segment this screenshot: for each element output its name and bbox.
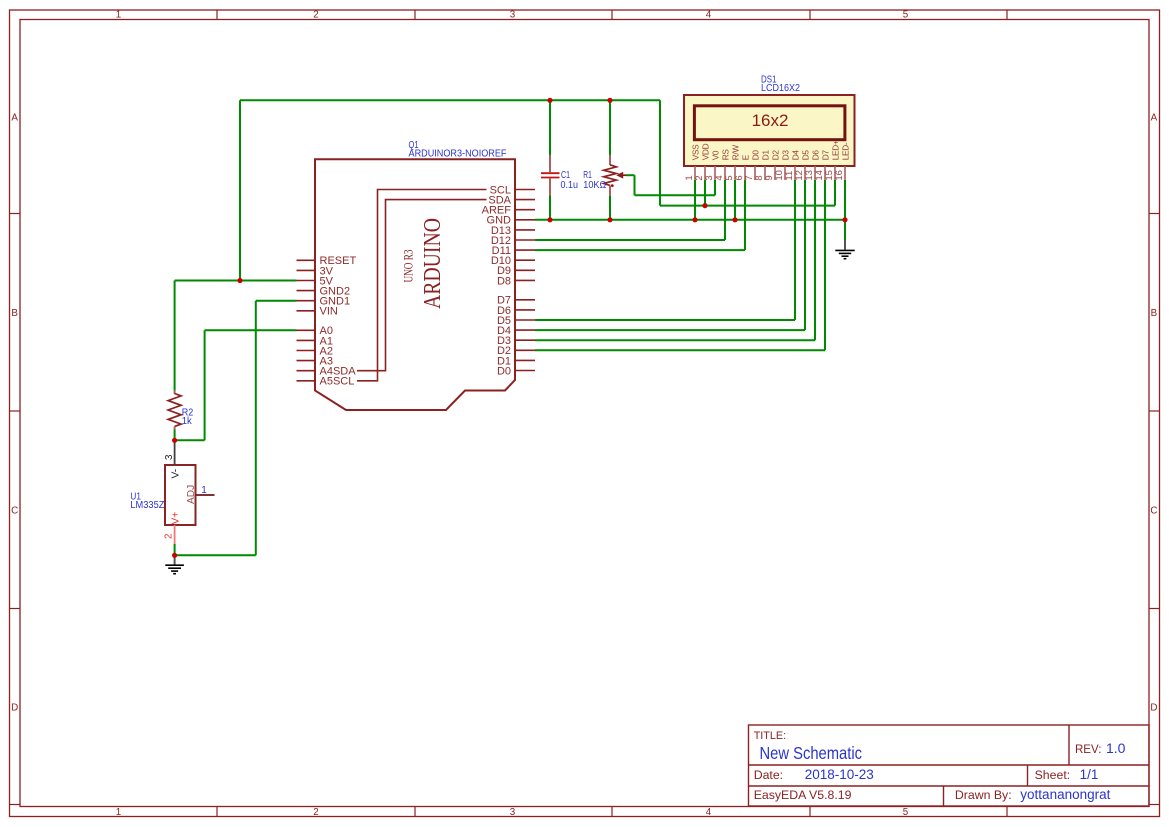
resistor R2 1k [174,391,176,394]
svg-text:D3: D3 [780,150,790,161]
svg-text:LCD16X2: LCD16X2 [761,83,800,94]
svg-text:UNO R3: UNO R3 [401,250,416,283]
svg-text:D5: D5 [800,150,810,161]
wire R1 wiper to LCD V0 [626,174,635,176]
junction U1 ground node [172,553,177,558]
wire U1 pin2 to ground node [174,544,176,555]
svg-text:D2: D2 [770,150,780,161]
svg-text:D6: D6 [810,150,820,161]
svg-text:1: 1 [116,10,121,21]
wire C1 top [549,100,551,155]
svg-text:3: 3 [164,454,175,460]
svg-text:New Schematic: New Schematic [760,743,863,763]
svg-text:VDD: VDD [700,143,710,160]
svg-text:REV:: REV: [1075,744,1101,756]
svg-text:A: A [11,112,18,123]
DS1 pins 1-16 [694,166,696,180]
svg-text:Sheet:: Sheet: [1035,768,1071,782]
junction A0/R2/U1 [172,438,177,443]
wire R1 top [609,100,611,155]
svg-text:TITLE:: TITLE: [754,730,786,742]
svg-text:B: B [1151,308,1158,319]
potentiometer R1 10KOhm [609,155,611,165]
Q1 left pins [297,259,316,261]
svg-text:LM335Z: LM335Z [130,500,164,511]
arduino U-symbol Q1 ARDUINOR3-NOIOREF outline [315,159,515,410]
junction 5V/C1 [547,98,552,103]
svg-text:VSS: VSS [690,144,700,160]
svg-text:D1: D1 [760,150,770,161]
wire LCD pin drops [694,180,696,220]
R1 wiper arrow [618,174,626,176]
svg-text:5: 5 [903,10,909,21]
wire 5V to LED+ vertical [659,100,661,205]
svg-text:1: 1 [116,807,121,818]
svg-text:C: C [11,506,18,517]
ground symbol left [174,555,176,564]
sensor U1 LM335Z body [165,465,196,525]
wire GND net bottom horizontal [535,219,845,221]
svg-text:ADJ: ADJ [186,485,197,504]
svg-text:16: 16 [834,170,845,181]
wire R2 bottom to node [174,429,176,440]
junction 5V node [237,278,242,283]
svg-text:V-: V- [171,469,182,479]
svg-text:V0: V0 [710,150,720,160]
svg-text:ARDUINOR3-NOIOREF: ARDUINOR3-NOIOREF [409,149,507,160]
svg-text:D8: D8 [497,275,511,287]
svg-text:D4: D4 [790,150,800,161]
svg-text:D0: D0 [497,365,511,377]
svg-text:1k: 1k [182,416,193,427]
svg-text:D: D [1150,703,1157,714]
svg-text:LED+: LED+ [830,140,840,160]
junction GND/C1 [547,217,552,222]
svg-text:3: 3 [510,10,516,21]
Q1 right pins [515,189,535,191]
wire D5 to LCD D4 [535,319,795,321]
Q1 internal SCL to A5SCL wire [357,190,487,381]
U1 pin 2 bottom [174,525,176,544]
DS1 display window [694,106,845,140]
svg-text:V+: V+ [171,512,182,525]
svg-text:B: B [11,308,18,319]
svg-text:EasyEDA V5.8.19: EasyEDA V5.8.19 [754,788,852,802]
svg-text:16x2: 16x2 [752,111,789,130]
svg-text:2: 2 [313,10,318,21]
svg-text:1/1: 1/1 [1080,767,1099,782]
svg-text:1.0: 1.0 [1106,740,1126,756]
Q1 internal SDA to A4SDA wire [357,200,487,371]
svg-text:5: 5 [903,807,909,818]
wire 5V net left vertical [239,100,241,280]
svg-text:0.1u: 0.1u [561,180,579,191]
svg-text:3: 3 [510,807,516,818]
svg-text:1: 1 [201,485,207,496]
svg-text:D: D [11,703,18,714]
svg-text:RS: RS [720,149,730,161]
junction GND/VSS [692,217,697,222]
svg-text:C: C [1150,506,1157,517]
R1 pin dot [611,184,614,187]
junction GND/LED- [842,217,847,222]
svg-text:D7: D7 [820,150,830,161]
svg-text:10KΩ: 10KΩ [583,180,606,191]
U1 pin 1 ADJ [196,494,215,496]
wire D3 to LCD D6 [535,339,815,341]
junction GND/R1 [607,217,612,222]
wire VDD LED+ horizontal [660,205,835,207]
junction 5V/R1 [607,98,612,103]
svg-text:D0: D0 [750,150,760,161]
svg-text:yottananongrat: yottananongrat [1020,787,1110,802]
wire junction to Arduino 5V pin [240,280,297,282]
junction VDD [702,203,707,208]
svg-text:A5SCL: A5SCL [320,376,355,388]
wire 5V net top horizontal [240,99,660,101]
wire D2 to LCD D7 [535,349,825,351]
capacitor C1 0.1u [549,155,551,172]
svg-text:E: E [740,154,750,160]
wire D11 to LCD E [535,249,745,251]
svg-text:ARDUINO: ARDUINO [420,218,446,309]
svg-text:Date:: Date: [754,768,783,782]
svg-text:Drawn By:: Drawn By: [955,788,1012,802]
wire C1 bottom [549,196,551,220]
svg-text:2018-10-23: 2018-10-23 [805,767,874,782]
svg-text:R/W: R/W [730,145,740,161]
svg-text:VIN: VIN [320,306,338,318]
wire D12 to LCD RS [535,239,725,241]
wire ground node to Arduino GND1 [175,554,256,556]
ground symbol LCD [844,240,846,250]
svg-text:4: 4 [706,10,712,21]
LCD module DS1 LCD16X2 body [684,95,855,166]
wire 5V to R2 top [175,280,240,282]
svg-text:2: 2 [164,534,175,539]
title block [749,725,1150,806]
U1 pin 3 top [174,441,176,465]
wire node to Arduino A0 [175,439,205,441]
junction GND/RW [732,217,737,222]
svg-text:A: A [1151,112,1158,123]
wire D4 to LCD D5 [535,329,805,331]
svg-text:LED-: LED- [840,142,850,160]
svg-text:2: 2 [313,807,318,818]
svg-text:4: 4 [706,807,712,818]
wire R1 bottom [609,195,611,220]
